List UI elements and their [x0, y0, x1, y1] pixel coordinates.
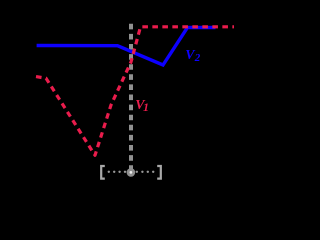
- svg-text:1: 1: [143, 100, 149, 114]
- vertical guide line (gray dashed): [129, 24, 133, 170]
- blue curve V2: [37, 28, 216, 66]
- left bracket [: [101, 166, 105, 179]
- right bracket ]: [157, 166, 161, 179]
- red dashed curve V1: [36, 27, 234, 156]
- interval marker dotted line (gray dots): [108, 171, 155, 173]
- circle marker at interval center: [127, 168, 136, 177]
- svg-text:2: 2: [194, 52, 201, 64]
